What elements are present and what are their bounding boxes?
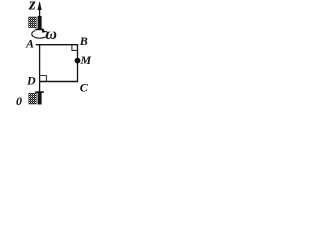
rotation arrow arc [32, 31, 48, 39]
svg-text:M: M [80, 53, 92, 67]
right angle mark at B [72, 45, 78, 50]
bearing bottom hatch block [29, 93, 37, 104]
svg-text:C: C [80, 80, 89, 94]
bearing top hatch block [29, 17, 37, 28]
rotation arrowhead [42, 29, 47, 33]
right angle mark at D [40, 76, 46, 81]
z axis / frame left side lower segment [39, 44, 41, 104]
svg-text:D: D [26, 74, 36, 88]
bearing top shaft (thick bar) [38, 16, 42, 29]
svg-text:z: z [28, 0, 36, 14]
frame right side BC [77, 44, 79, 82]
bead M on side BC [75, 58, 81, 64]
bearing bottom upper flange [35, 91, 44, 93]
svg-text:A: A [25, 37, 34, 51]
svg-text:ω: ω [45, 26, 57, 43]
bearing bottom shaft (thick bar) [38, 92, 42, 104]
svg-text:0: 0 [16, 94, 22, 108]
frame bottom side DC [39, 81, 78, 83]
z axis upper segment [39, 3, 41, 17]
frame top side AB [36, 44, 78, 46]
bearing top lower flange [35, 29, 44, 31]
z axis arrowhead [38, 1, 42, 10]
svg-text:B: B [79, 34, 88, 48]
